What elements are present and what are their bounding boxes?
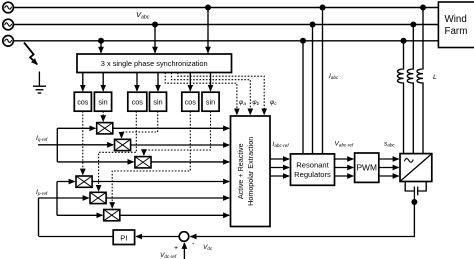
capacitor Cdc [414, 187, 417, 196]
block cos2 [128, 92, 147, 111]
node dot line-c tap conv [401, 38, 407, 44]
wire Ip to M6 [57, 214, 102, 216]
block PI [113, 230, 134, 245]
svg-text:3 x single phase synchronizati: 3 x single phase synchronization [101, 59, 208, 68]
wire RR to PWM row2 [335, 167, 354, 169]
svg-text:Active + Reactive: Active + Reactive [236, 143, 245, 199]
svg-text:cos: cos [132, 98, 144, 107]
svg-text:Resonant: Resonant [296, 161, 329, 170]
wire sum to PI [136, 236, 179, 238]
AC source G3 [3, 36, 14, 47]
block PWM U4 [355, 153, 379, 182]
wire dc leg left [405, 182, 414, 192]
wire ext to RR row1 [270, 158, 289, 160]
wire Ip-ref main [39, 198, 89, 236]
node dot line-a tap Iabc [320, 5, 326, 11]
multiplier M5 [90, 192, 106, 203]
svg-text:Homopolar Extraction: Homopolar Extraction [246, 137, 255, 206]
dashed sin2 to M2 [122, 111, 158, 138]
multiplier M2 [115, 139, 131, 150]
node dot Vdc [411, 199, 417, 205]
wire RR to PWM row3 [335, 175, 354, 177]
wire phase line a [13, 7, 438, 9]
inductor La [397, 41, 403, 154]
wire Vdc tap [413, 195, 415, 202]
multiplier M4 [76, 176, 92, 187]
fault zigzag arrow [24, 43, 37, 65]
summing node S1 [179, 232, 189, 242]
wire sync drop b [154, 25, 156, 53]
block extraction U2 [231, 116, 271, 227]
wire PWM to conv row1 [379, 158, 399, 160]
wire PI out [39, 236, 114, 238]
wire Iq to M1 [57, 127, 95, 129]
wire Ip to M4 [57, 181, 75, 183]
inductor Lc [417, 8, 423, 154]
wire Ip branch vertical [56, 182, 58, 216]
wire drop to cos1 [82, 73, 84, 91]
node dot line-b tap sync [152, 22, 158, 28]
block sync U1 [77, 54, 232, 73]
multiplier M1 [97, 123, 113, 134]
svg-text:cos: cos [185, 98, 197, 107]
wire Vdc-ref in [183, 243, 185, 259]
wire Iabc drop b [312, 25, 314, 154]
wire PWM to conv row2 [379, 167, 399, 169]
svg-text:PI: PI [120, 234, 127, 243]
wire phase line c [13, 40, 438, 42]
wire PWM to conv row3 [379, 175, 399, 177]
wire Iq branch vertical [56, 128, 58, 162]
block cos3 [182, 92, 199, 111]
svg-text:Wind: Wind [445, 14, 467, 25]
wire Iq to M3 [57, 161, 133, 163]
wire drop to sin2 [157, 73, 159, 91]
node dot line-b tap conv [410, 22, 416, 28]
converter U5 [400, 154, 432, 182]
wire ext to RR row3 [270, 175, 289, 177]
wire Iabc drop c [302, 41, 304, 154]
wire M6 out [120, 214, 229, 216]
wire M3 out [151, 161, 229, 163]
AC source G2 [3, 19, 14, 30]
block cos1 [74, 92, 91, 111]
wire Iq-ref main [38, 144, 113, 146]
wire sync drop a [207, 8, 209, 53]
wire drop to cos2 [136, 73, 138, 91]
wire dc leg right [418, 182, 427, 192]
wire drop to sin1 [102, 73, 104, 91]
wire drop to sin3 [210, 73, 212, 91]
AC source G1 [3, 2, 14, 13]
ground [33, 72, 46, 94]
wire Iabc drop a [322, 8, 324, 154]
block sin3 [202, 92, 219, 111]
node dot line-c tap sync [98, 38, 104, 44]
block sin1 [94, 92, 111, 111]
svg-text:L: L [433, 74, 437, 81]
dashed cos2 to M5 [99, 111, 137, 191]
wire Vdc feedback [191, 202, 415, 237]
multiplier M3 [135, 157, 151, 168]
svg-text:cos: cos [77, 98, 89, 107]
dashed sin3 to M3 [144, 111, 211, 155]
dashed sin1 to M1 [102, 111, 104, 121]
wire drop to cos3 [189, 73, 191, 91]
wire M5 out [106, 197, 229, 199]
node dot line-a tap sync [205, 5, 211, 11]
svg-text:Farm: Farm [445, 26, 468, 37]
wire M4 out [92, 181, 229, 183]
block wind farm [438, 2, 474, 48]
dashed phi-c route [178, 73, 264, 115]
wire M1 out [113, 127, 229, 129]
node dot line-a tap conv [420, 5, 426, 11]
wire sync drop c [100, 41, 102, 53]
svg-text:+: + [174, 245, 178, 252]
wire ext to RR row2 [270, 167, 289, 169]
wire M2 out [131, 144, 230, 146]
dashed cos3 to M6 [112, 111, 190, 208]
wire RR to PWM row1 [335, 158, 354, 160]
block resonant regulators U3 [291, 154, 335, 185]
svg-text:PWM: PWM [356, 163, 376, 173]
node dot line-b tap Iabc [310, 22, 316, 28]
svg-text:Regulators: Regulators [294, 170, 331, 179]
inductor Lb [407, 25, 413, 154]
node dot line-c tap Iabc [300, 38, 306, 44]
dashed phi-a route [165, 73, 237, 115]
dashed phi-b route [172, 73, 251, 115]
dashed cos1 to M4 [82, 111, 84, 174]
multiplier M6 [104, 210, 120, 221]
svg-text:sin: sin [98, 98, 107, 107]
svg-text:sin: sin [153, 98, 162, 107]
svg-text:sin: sin [206, 98, 215, 107]
block sin2 [150, 92, 167, 111]
wire phase line b [13, 24, 438, 26]
